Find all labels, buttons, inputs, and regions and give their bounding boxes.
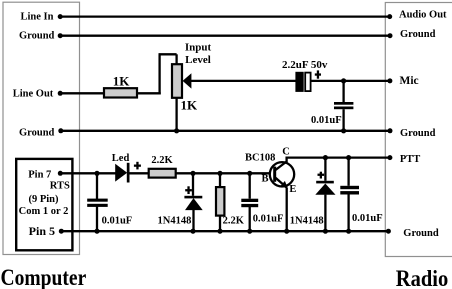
svg-text:2.2K: 2.2K — [223, 215, 245, 226]
node emitter ground junction — [284, 229, 289, 234]
wire pot wiper to capacitor — [191, 80, 296, 82]
wire 1N4148 PTT bottom lead — [324, 195, 326, 232]
svg-text:Ground: Ground — [400, 29, 436, 40]
capacitor 0.01uF (base filter) — [241, 199, 258, 208]
wire pot branch vertical — [158, 54, 160, 94]
wire emitter to ground bottom — [286, 188, 288, 231]
svg-text:BC108: BC108 — [245, 152, 275, 163]
node Audio Out terminal — [387, 14, 392, 19]
wire ground mid — [61, 130, 390, 132]
svg-text:Mic: Mic — [400, 75, 419, 87]
svg-text:0.01uF: 0.01uF — [102, 216, 133, 227]
svg-text:0.01uF: 0.01uF — [352, 213, 383, 224]
svg-text:Level: Level — [185, 54, 211, 66]
diode 1N4148 (PTT clamp) — [315, 181, 335, 195]
svg-text:1K: 1K — [181, 97, 199, 112]
node Mic branch junction — [341, 78, 346, 83]
node 1N4148 top junction — [190, 171, 195, 176]
resistor 1K (series) — [104, 88, 137, 97]
node Mic terminal — [387, 78, 392, 83]
wire collector to PTT line — [285, 157, 287, 163]
wire pot branch horizontal top — [159, 53, 177, 55]
diode 1N4148 (RTS clamp) — [184, 196, 202, 210]
svg-text:(9 Pin): (9 Pin) — [28, 194, 59, 205]
svg-text:Pin 5: Pin 5 — [29, 224, 55, 238]
wire ground bottom — [61, 230, 388, 232]
node Pin 5 terminal — [59, 229, 64, 234]
node 0.01uF PTT junction — [346, 155, 351, 160]
svg-text:Radio: Radio — [396, 266, 448, 289]
node RTS filter junction — [94, 171, 99, 176]
svg-text:RTS: RTS — [50, 181, 70, 192]
wire capacitor to ground mid — [342, 109, 344, 131]
node capacitor ground junction — [94, 229, 99, 234]
wire junction down to capacitor — [96, 173, 98, 199]
node Pin 7 terminal — [58, 171, 63, 176]
label + (Led polarity) — [134, 162, 141, 170]
label + (2.2uF polarity) — [315, 70, 321, 78]
svg-text:1N4148: 1N4148 — [290, 215, 324, 226]
wire 2.2K top lead — [219, 173, 221, 187]
svg-text:1N4148: 1N4148 — [158, 215, 192, 226]
wire Led to resistor — [130, 172, 150, 174]
wire 0.01uF PTT top lead — [347, 158, 349, 186]
label + (1N4148 polarity) — [185, 186, 192, 194]
capacitor 2.2uF 50v negative plate — [295, 72, 303, 92]
transistor BC108 — [270, 162, 294, 189]
node 0.01uF top junction — [247, 171, 252, 176]
svg-text:Ground: Ground — [400, 128, 436, 139]
wire 1N4148 PTT top lead — [324, 158, 326, 181]
svg-text:Line Out: Line Out — [13, 89, 54, 100]
diode Led — [115, 163, 129, 183]
wire 0.01uF top lead (base filter) — [249, 173, 251, 198]
node 1N4148 ground junction — [190, 229, 195, 234]
resistor 2.2K (series) — [149, 169, 176, 178]
node 2.2K top junction — [217, 171, 222, 176]
svg-text:Ground: Ground — [19, 127, 55, 138]
node 1N4148 PTT ground junction — [323, 229, 328, 234]
svg-text:Ground: Ground — [19, 31, 55, 42]
wire 2.2K bottom lead — [219, 216, 221, 232]
capacitor 2.2uF 50v positive plate — [305, 73, 310, 92]
svg-text:Audio Out: Audio Out — [399, 10, 447, 21]
svg-text:1K: 1K — [113, 73, 131, 88]
wire Pin 7 to LED — [60, 172, 115, 174]
wire pot top lead — [175, 54, 177, 65]
svg-text:B: B — [261, 174, 268, 185]
node 0.01uF ground junction — [247, 229, 252, 234]
resistor 2.2K (base pulldown) — [216, 187, 224, 216]
node Line Out terminal — [58, 91, 63, 96]
svg-text:PTT: PTT — [400, 154, 420, 165]
node capacitor ground junction — [341, 128, 346, 133]
wire Mic junction down to capacitor — [342, 81, 344, 102]
computer inner box (DB9 connector) — [16, 159, 72, 250]
svg-text:2.2uF 50v: 2.2uF 50v — [282, 59, 328, 71]
wire capacitor to ground bottom — [96, 206, 98, 231]
svg-text:C: C — [282, 147, 290, 158]
node 0.01uF PTT ground junction — [346, 229, 351, 234]
wire Line Out to resistor — [60, 92, 105, 94]
node ground terminal left mid — [58, 128, 63, 133]
node Line In terminal — [58, 14, 63, 19]
wire Line In to Audio Out — [60, 15, 390, 17]
svg-text:Pin 7: Pin 7 — [28, 170, 51, 181]
capacitor 0.01uF (RTS filter) — [87, 199, 108, 207]
wire 0.01uF bottom lead — [249, 207, 251, 232]
node PTT terminal — [387, 155, 392, 160]
computer box — [3, 2, 80, 254]
svg-text:Led: Led — [112, 153, 130, 164]
potentiometer wiper arrow — [183, 73, 192, 88]
capacitor 0.01uF (PTT filter) — [340, 186, 359, 195]
wire 0.01uF PTT bottom lead — [347, 194, 349, 231]
svg-text:Ground: Ground — [403, 228, 439, 239]
svg-text:Computer: Computer — [1, 265, 87, 289]
wire resistor to pot branch — [137, 92, 161, 94]
svg-text:Input: Input — [185, 41, 212, 53]
radio box — [385, 3, 452, 257]
node ground terminal right top — [388, 33, 393, 38]
svg-text:0.01uF: 0.01uF — [311, 115, 342, 126]
node ground terminal left top — [58, 33, 63, 38]
capacitor 0.01uF (mic filter) — [334, 102, 353, 109]
wire pot bottom lead — [175, 98, 177, 131]
svg-text:Com 1 or 2: Com 1 or 2 — [19, 206, 69, 217]
wire PTT line — [286, 156, 390, 158]
node ground terminal right bottom — [386, 229, 391, 234]
node 1N4148 PTT junction — [323, 155, 328, 160]
node pot bottom junction — [174, 128, 179, 133]
svg-text:Line In: Line In — [21, 11, 54, 22]
svg-text:0.01uF: 0.01uF — [253, 214, 284, 225]
svg-text:E: E — [289, 184, 296, 195]
potentiometer 1K body — [172, 64, 182, 98]
node 2.2K ground junction — [217, 229, 222, 234]
wire 1N4148 bottom lead — [192, 210, 194, 231]
svg-text:2.2K: 2.2K — [151, 155, 173, 166]
wire capacitor to Mic — [311, 80, 390, 82]
wire 1N4148 top lead — [192, 173, 194, 196]
label + (1N4148 PTT polarity) — [318, 172, 325, 179]
node ground terminal right mid — [388, 128, 393, 133]
wire ground top — [60, 35, 390, 37]
wire resistor to transistor base — [176, 172, 271, 174]
